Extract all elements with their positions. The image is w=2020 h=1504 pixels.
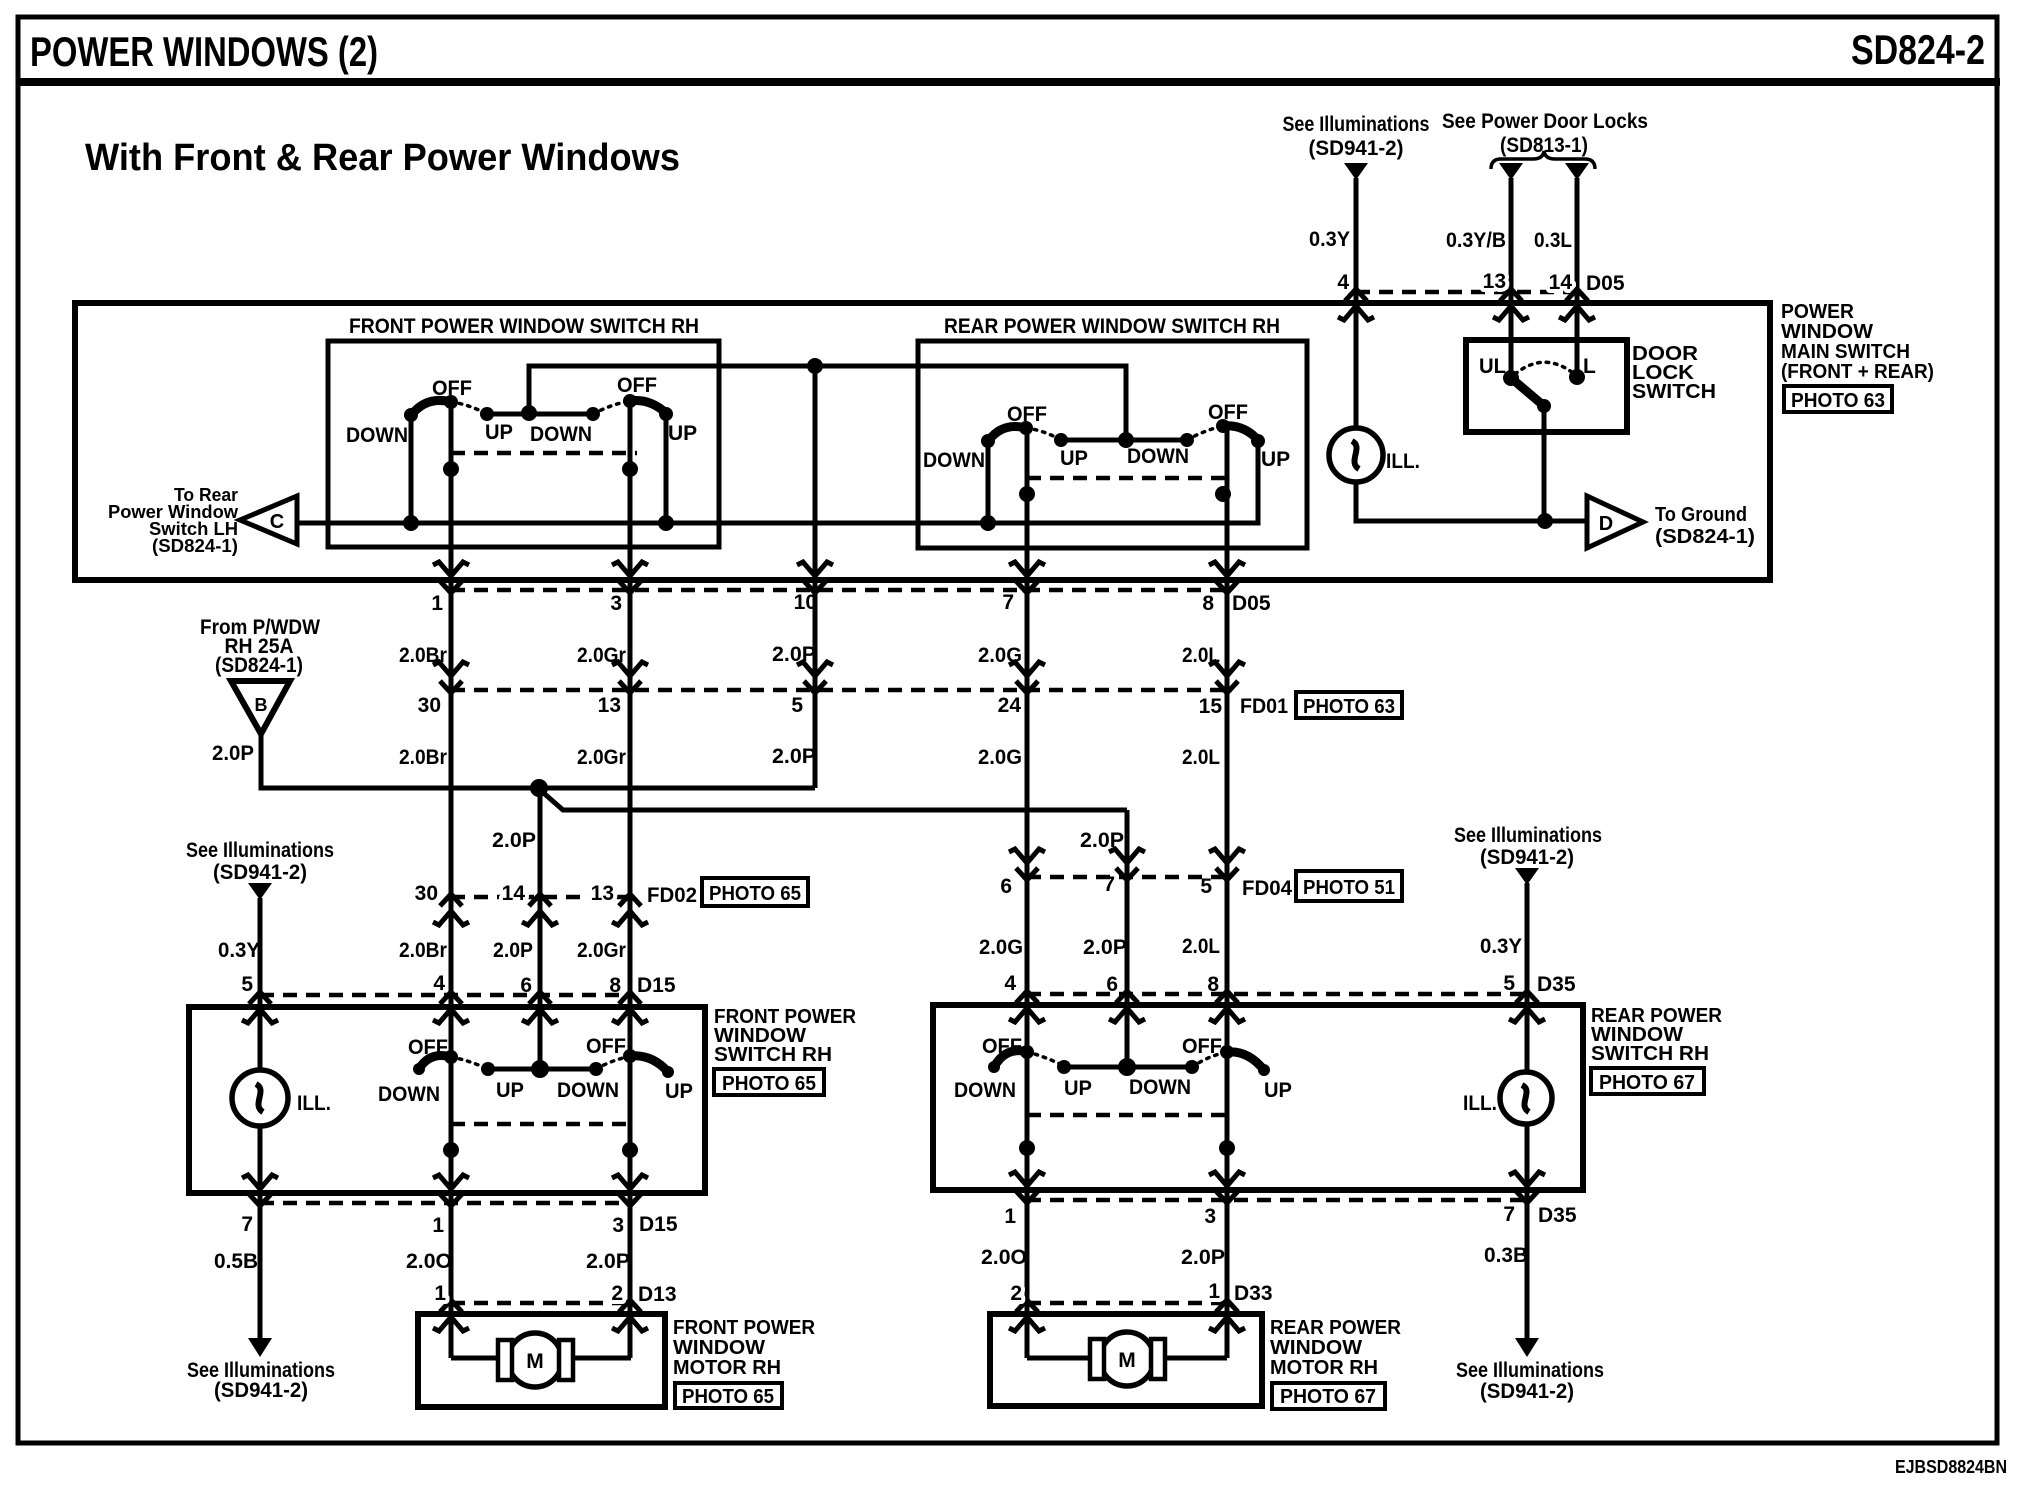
- connector chevrons D35 pin1: [1009, 1172, 1045, 1203]
- svg-text:DOWN: DOWN: [1129, 1076, 1191, 1099]
- mechanical link dashed (front upper): [451, 451, 637, 456]
- svg-text:6: 6: [520, 974, 532, 997]
- svg-text:1: 1: [1004, 1205, 1016, 1228]
- svg-text:ILL.: ILL.: [1463, 1092, 1497, 1115]
- connector chevrons D05 pin4: [1338, 289, 1374, 320]
- svg-text:2.0O: 2.0O: [406, 1250, 452, 1273]
- svg-text:SD824-2: SD824-2: [1851, 26, 1985, 73]
- mechanical link dashed (front lower): [451, 1122, 633, 1127]
- switch arm OFF-UP (front lower right): [630, 1056, 668, 1072]
- wire to rear motor left brush: [1027, 1356, 1092, 1361]
- svg-text:0.3Y: 0.3Y: [218, 939, 260, 962]
- svg-text:M: M: [1118, 1349, 1136, 1372]
- switch pivot dot (rear lower right): [1220, 1045, 1234, 1059]
- svg-text:(SD824-1): (SD824-1): [1655, 526, 1755, 548]
- connector D13 dashed line: [451, 1301, 631, 1306]
- svg-text:3: 3: [610, 592, 622, 615]
- connector chevrons FD04 pin6: [1009, 849, 1045, 880]
- label See Illuminations (SD941-2) bottom right: [1456, 1359, 1604, 1403]
- dotted throw DOWN-pivot (rear upper right): [1187, 426, 1223, 440]
- svg-text:(SD941-2): (SD941-2): [1480, 846, 1574, 869]
- connector chevrons D35 pin8: [1209, 991, 1245, 1022]
- photo ref box PHOTO 63 (FD01): [1296, 692, 1402, 718]
- svg-text:See Illuminations: See Illuminations: [1456, 1359, 1604, 1382]
- svg-text:2.0Gr: 2.0Gr: [577, 939, 626, 962]
- svg-text:5: 5: [1200, 875, 1212, 898]
- wire to motor right brush: [572, 1356, 631, 1361]
- svg-text:D15: D15: [639, 1213, 678, 1236]
- wire link between contacts (front lower): [488, 1067, 596, 1072]
- connector chevrons D35 pin6: [1109, 991, 1145, 1022]
- connector chevrons D05 pin13: [1493, 289, 1529, 320]
- junction dot wire4 (front lower): [443, 1142, 459, 1158]
- arrow into wire 0.3Y right: [1515, 868, 1539, 885]
- contact DOWN dot (rear lower right): [1185, 1060, 1199, 1074]
- front power window switch RH lower box: [189, 1007, 705, 1193]
- junction dot link center (front lower): [531, 1060, 549, 1078]
- switch pivot dot (rear lower left): [1020, 1045, 1034, 1059]
- svg-text:REAR POWER WINDOW SWITCH RH: REAR POWER WINDOW SWITCH RH: [944, 315, 1280, 338]
- svg-text:(FRONT + REAR): (FRONT + REAR): [1781, 361, 1934, 383]
- arrow to See Illuminations bottom left: [248, 1338, 272, 1357]
- svg-text:See Illuminations: See Illuminations: [1283, 113, 1430, 136]
- contact UP dot + wire to bus end (rear upper right): [297, 434, 1265, 523]
- contact UP dot (front upper left): [480, 407, 494, 421]
- connector chevrons D05 pin14: [1559, 289, 1595, 320]
- connector D triangle to ground: [1587, 496, 1643, 548]
- junction dot link center (rear lower): [1118, 1058, 1136, 1076]
- wire link between contacts (rear lower): [1064, 1065, 1192, 1070]
- svg-text:OFF: OFF: [617, 374, 657, 397]
- svg-text:2.0P: 2.0P: [493, 939, 533, 962]
- svg-text:PHOTO 65: PHOTO 65: [722, 1073, 816, 1095]
- svg-text:13: 13: [598, 694, 621, 717]
- arrow from power door locks into wire 0.3L: [1565, 163, 1589, 180]
- junction dot wire1 (front upper): [443, 461, 459, 477]
- svg-text:4: 4: [1004, 972, 1016, 995]
- junction dot wire8 (rear upper): [1215, 486, 1231, 502]
- bus junction dot front DOWN: [403, 515, 419, 531]
- connector FD04 dashed line: [1027, 875, 1227, 880]
- svg-text:D05: D05: [1586, 272, 1625, 295]
- contact DOWN dot (front upper right): [586, 407, 600, 421]
- svg-text:D13: D13: [638, 1283, 677, 1306]
- connector chevrons D35 pin4: [1009, 991, 1045, 1022]
- svg-text:8: 8: [1207, 973, 1219, 996]
- wire 2.0P jog to rear branch: [539, 789, 1127, 810]
- switch pivot dot (front lower right): [623, 1049, 637, 1063]
- svg-text:0.5B: 0.5B: [214, 1250, 258, 1273]
- connector chevrons FD01 pin30: [433, 662, 469, 693]
- svg-text:2.0Br: 2.0Br: [399, 746, 447, 769]
- contact UP dot (front lower left): [481, 1062, 495, 1076]
- junction dot wire8 (rear lower): [1219, 1140, 1235, 1156]
- svg-text:(SD941-2): (SD941-2): [214, 1379, 308, 1402]
- svg-text:DOWN: DOWN: [923, 449, 985, 472]
- svg-text:(SD824-1): (SD824-1): [152, 536, 238, 556]
- connector chevrons FD04 pin5: [1209, 849, 1245, 880]
- svg-text:FRONT POWER: FRONT POWER: [673, 1317, 816, 1339]
- junction pin10 tee: [807, 358, 823, 374]
- title separator bar: [16, 78, 2000, 86]
- junction dot 2.0P distribution: [530, 779, 548, 797]
- svg-text:UL: UL: [1479, 355, 1506, 378]
- arrow to See Illuminations bottom right: [1515, 1338, 1539, 1357]
- wire horizontal top link y366: [529, 366, 1126, 440]
- connector chevrons D05 pin7: [1009, 562, 1045, 593]
- svg-text:14: 14: [502, 882, 526, 905]
- switch pivot dot (front upper left): [444, 395, 458, 409]
- svg-text:5: 5: [791, 694, 803, 717]
- svg-text:4: 4: [1337, 271, 1349, 294]
- svg-text:UP: UP: [1060, 447, 1088, 470]
- contact DOWN dot (front lower right): [589, 1062, 603, 1076]
- brace over door lock wires: [1491, 151, 1595, 169]
- svg-text:2.0L: 2.0L: [1182, 746, 1220, 769]
- photo ref box PHOTO 67 (rear motor): [1272, 1383, 1385, 1409]
- svg-text:DOWN: DOWN: [1127, 445, 1189, 468]
- svg-text:2.0Gr: 2.0Gr: [577, 746, 626, 769]
- wire 2.0Gr vertical (pin3/D05 to lower pin8): [628, 401, 633, 1358]
- switch arm OFF-DOWN (front lower left): [419, 1056, 451, 1070]
- label From P/WDW RH 25A (SD824-1): [200, 616, 320, 677]
- arrow from illuminations into wire 0.3Y: [1344, 163, 1368, 180]
- svg-text:8: 8: [609, 974, 621, 997]
- svg-text:7: 7: [1503, 1203, 1515, 1226]
- connector D05 top dashed line: [1356, 290, 1577, 295]
- svg-text:8: 8: [1202, 592, 1214, 615]
- connector D35 bottom dashed line: [1027, 1198, 1527, 1203]
- switch pivot dot (front lower left): [444, 1050, 458, 1064]
- svg-text:30: 30: [418, 694, 441, 717]
- svg-text:PHOTO 65: PHOTO 65: [709, 883, 801, 905]
- svg-text:UP: UP: [485, 421, 513, 444]
- ILL lamp rear lower: [1500, 1072, 1552, 1124]
- door lock switch box: [1466, 340, 1627, 432]
- svg-text:2: 2: [611, 1282, 623, 1305]
- svg-text:B: B: [255, 695, 268, 715]
- svg-text:PHOTO 63: PHOTO 63: [1303, 696, 1395, 718]
- wire 0.3Y right to rear lower ILL lamp: [1525, 883, 1530, 1340]
- power window main switch outer box: [75, 303, 1770, 580]
- connector chevrons D05 pin10: [797, 562, 833, 593]
- contact UL dot: [1503, 370, 1519, 386]
- svg-text:2.0P: 2.0P: [586, 1250, 630, 1273]
- svg-text:WINDOW: WINDOW: [1781, 321, 1873, 343]
- svg-text:(SD824-1): (SD824-1): [215, 654, 303, 677]
- svg-text:6: 6: [1106, 973, 1118, 996]
- dotted throw pivot-UP (rear upper left): [1026, 428, 1061, 440]
- door lock switch arm: [1511, 378, 1544, 406]
- svg-text:DOWN: DOWN: [378, 1083, 440, 1106]
- svg-text:MOTOR RH: MOTOR RH: [673, 1357, 781, 1379]
- junction dot wire7 (rear upper): [1019, 486, 1035, 502]
- svg-text:PHOTO 65: PHOTO 65: [682, 1386, 774, 1408]
- contact UP dot (rear upper left): [1054, 433, 1068, 447]
- connector chevrons D05 pin8: [1209, 562, 1245, 593]
- svg-text:1: 1: [432, 1214, 444, 1237]
- junction dot link center (rear upper): [1118, 432, 1134, 448]
- svg-text:2: 2: [1010, 1282, 1022, 1305]
- dotted throw DOWN-pivot (rear lower right): [1192, 1052, 1227, 1067]
- connector D33 dashed line: [1027, 1301, 1227, 1306]
- svg-text:1: 1: [434, 1282, 446, 1305]
- wire 2.0G vertical (pin7/D05 to rear lower box): [1025, 428, 1030, 1358]
- svg-text:UP: UP: [496, 1079, 524, 1102]
- svg-text:(SD941-2): (SD941-2): [1480, 1380, 1574, 1403]
- svg-text:0.3B: 0.3B: [1484, 1244, 1528, 1267]
- door lock pivot dot + wire to ground bus: [1537, 399, 1551, 521]
- wire lamp bottom to ground bus: [1356, 482, 1586, 521]
- dotted throw pivot-UP (front lower left): [451, 1057, 488, 1069]
- connector D05 bottom dashed line: [451, 588, 1227, 593]
- label See Illuminations (SD941-2) top: [1283, 113, 1430, 160]
- connector chevrons D15 pin3: [612, 1175, 648, 1206]
- contact DOWN dot + wire to bus (rear upper left): [981, 434, 995, 523]
- connector D15 bottom dashed line: [260, 1201, 631, 1206]
- svg-text:OFF: OFF: [982, 1035, 1022, 1058]
- svg-text:24: 24: [998, 694, 1022, 717]
- svg-text:ILL.: ILL.: [297, 1092, 331, 1115]
- label See Illuminations (SD941-2) left: [186, 839, 334, 884]
- connector FD02 dashed line: [451, 895, 630, 900]
- svg-text:UP: UP: [665, 1080, 693, 1103]
- switch pivot dot (rear upper right): [1216, 419, 1230, 433]
- svg-text:See Illuminations: See Illuminations: [186, 839, 334, 862]
- connector chevrons D13 pin1: [433, 1300, 469, 1331]
- label FRONT POWER WINDOW MOTOR RH: [673, 1317, 816, 1379]
- svg-text:D33: D33: [1234, 1282, 1273, 1305]
- svg-text:2.0P: 2.0P: [1083, 936, 1127, 959]
- ILL lamp front lower: [232, 1070, 288, 1126]
- svg-text:MAIN SWITCH: MAIN SWITCH: [1781, 341, 1910, 363]
- junction dot link center (front upper): [521, 405, 537, 421]
- wire 2.0P feed horizontal from B: [261, 734, 815, 788]
- svg-text:M: M: [526, 1350, 544, 1373]
- svg-text:POWER: POWER: [1781, 301, 1855, 323]
- svg-text:D05: D05: [1232, 592, 1271, 615]
- svg-text:0.3Y/B: 0.3Y/B: [1446, 229, 1506, 252]
- connector chevrons D33 pin2: [1009, 1300, 1045, 1331]
- connector chevrons D05 pin1: [433, 562, 469, 593]
- switch arm OFF-UP (front upper right): [630, 401, 667, 414]
- dotted throw DOWN-pivot (front lower right): [596, 1056, 631, 1069]
- svg-text:13: 13: [591, 882, 614, 905]
- junction dot wire8 (front lower): [622, 1142, 638, 1158]
- svg-text:C: C: [270, 511, 284, 533]
- junction dot wire3 (front upper): [622, 461, 638, 477]
- svg-text:0.3L: 0.3L: [1534, 229, 1572, 252]
- connector chevrons D13 pin2: [612, 1300, 648, 1331]
- svg-text:D15: D15: [637, 974, 676, 997]
- connector chevrons FD01 pin13: [612, 662, 648, 693]
- svg-text:2.0G: 2.0G: [979, 936, 1023, 959]
- svg-text:See Power Door Locks: See Power Door Locks: [1442, 110, 1648, 133]
- label REAR POWER WINDOW SWITCH RH (lower): [1591, 1005, 1723, 1065]
- svg-text:DOWN: DOWN: [346, 424, 408, 447]
- svg-text:2.0O: 2.0O: [981, 1246, 1027, 1269]
- dotted throw pivot-UP (front upper left): [451, 402, 487, 414]
- wire to motor left brush: [451, 1356, 500, 1361]
- rear power window switch RH lower box: [933, 1005, 1583, 1190]
- dotted throw pivot-UP (rear lower left): [1027, 1052, 1064, 1066]
- svg-text:1: 1: [431, 592, 443, 615]
- svg-text:2.0Br: 2.0Br: [399, 939, 447, 962]
- svg-text:FRONT POWER WINDOW SWITCH RH: FRONT POWER WINDOW SWITCH RH: [349, 315, 699, 338]
- connector chevrons D33 pin1: [1209, 1300, 1245, 1331]
- svg-text:PHOTO 63: PHOTO 63: [1791, 390, 1885, 412]
- svg-text:2.0P: 2.0P: [492, 829, 536, 852]
- photo ref box PHOTO 51 (FD04): [1296, 871, 1402, 901]
- arrow into wire 0.3Y left: [248, 883, 272, 900]
- switch arm OFF-DOWN (front upper left): [413, 400, 451, 413]
- svg-text:PHOTO 51: PHOTO 51: [1303, 877, 1395, 899]
- svg-text:PHOTO 67: PHOTO 67: [1599, 1072, 1695, 1094]
- label See Illuminations (SD941-2) right: [1454, 824, 1602, 869]
- connector B triangle from P/WDW: [231, 681, 290, 734]
- photo ref box PHOTO 65 (front motor): [675, 1383, 782, 1408]
- dotted throw arc UL-L: [1515, 362, 1573, 374]
- connector chevrons D05 pin3: [612, 562, 648, 593]
- svg-text:UP: UP: [1264, 1079, 1292, 1102]
- contact UP dot (rear lower left): [1057, 1060, 1071, 1074]
- svg-text:SWITCH RH: SWITCH RH: [1591, 1043, 1709, 1065]
- svg-text:1: 1: [1208, 1280, 1220, 1303]
- switch arm OFF-UP (rear lower right): [1227, 1052, 1264, 1070]
- wire 0.3Y from See Illuminations to ILL lamp: [1354, 178, 1359, 521]
- bus junction dot rear DOWN: [980, 515, 996, 531]
- svg-text:OFF: OFF: [1208, 401, 1248, 424]
- svg-text:REAR POWER: REAR POWER: [1270, 1317, 1402, 1339]
- connector C triangle to rear power window switch LH: [240, 496, 297, 544]
- motor M front: [498, 1333, 573, 1387]
- svg-text:15: 15: [1199, 695, 1223, 718]
- svg-text:WINDOW: WINDOW: [1270, 1337, 1362, 1359]
- switch arm OFF-UP (rear upper right): [1223, 426, 1259, 441]
- contact DOWN dot + wire to bus (front upper left): [404, 408, 418, 523]
- connector chevrons D15 pin8: [612, 992, 648, 1023]
- svg-text:SWITCH: SWITCH: [1632, 381, 1716, 403]
- svg-text:2.0G: 2.0G: [978, 746, 1022, 769]
- svg-text:D35: D35: [1538, 1204, 1577, 1227]
- svg-text:2.0P: 2.0P: [212, 742, 254, 765]
- connector D15 top dashed line: [260, 993, 630, 998]
- photo ref box PHOTO 65 (front lower switch): [714, 1069, 824, 1095]
- svg-text:DOWN: DOWN: [557, 1079, 619, 1102]
- svg-text:PHOTO 67: PHOTO 67: [1280, 1386, 1376, 1408]
- svg-text:MOTOR RH: MOTOR RH: [1270, 1357, 1378, 1379]
- rear power window switch RH box (upper): [918, 341, 1307, 548]
- svg-text:OFF: OFF: [586, 1035, 626, 1058]
- svg-text:14: 14: [1549, 271, 1573, 294]
- svg-text:OFF: OFF: [1182, 1035, 1222, 1058]
- label REAR POWER WINDOW MOTOR RH: [1270, 1317, 1402, 1379]
- svg-text:FD02: FD02: [647, 884, 697, 907]
- junction dot ground bus: [1537, 513, 1553, 529]
- bus junction dot front UP: [658, 515, 674, 531]
- wire 2.0P vertical rear branch (to FD04 pin7): [1125, 810, 1130, 1068]
- svg-text:(SD941-2): (SD941-2): [213, 861, 307, 884]
- svg-text:ILL.: ILL.: [1386, 450, 1420, 473]
- contact L dot: [1569, 369, 1585, 385]
- arrow from power door locks into wire 0.3Y/B: [1499, 163, 1523, 180]
- svg-text:2.0P: 2.0P: [1181, 1246, 1225, 1269]
- arm end blob (rear lower right): [1258, 1064, 1270, 1076]
- label See Illuminations (SD941-2) bottom left: [187, 1359, 335, 1402]
- connector chevrons D35 pin7: [1509, 1172, 1545, 1203]
- motor M rear: [1090, 1332, 1165, 1386]
- svg-text:OFF: OFF: [408, 1036, 448, 1059]
- wire link between switch contacts (rear upper): [1061, 438, 1187, 443]
- arm end blob (front lower left): [413, 1063, 425, 1075]
- svg-text:(SD941-2): (SD941-2): [1309, 137, 1404, 160]
- switch arm OFF-DOWN (rear lower left): [994, 1051, 1027, 1067]
- photo ref box PHOTO 63 (main switch): [1784, 386, 1892, 412]
- svg-text:0.3Y: 0.3Y: [1309, 228, 1350, 251]
- connector chevrons FD01 pin24: [1009, 662, 1045, 693]
- svg-text:SWITCH RH: SWITCH RH: [714, 1044, 832, 1066]
- connector chevrons FD01 pin5: [797, 662, 833, 693]
- svg-text:D35: D35: [1537, 973, 1576, 996]
- photo ref box PHOTO 67 (rear lower switch): [1591, 1068, 1704, 1094]
- connector chevrons D15 pin1: [433, 1175, 469, 1206]
- wire link between switch contacts (front upper): [487, 412, 593, 417]
- mechanical link dashed (rear lower): [1027, 1113, 1230, 1118]
- wire 2.0L vertical (pin8/D05 to rear lower box): [1225, 426, 1230, 1358]
- wire 0.3L to door lock switch L: [1575, 178, 1580, 377]
- connector chevrons FD02 pin14: [522, 894, 558, 925]
- wire 2.0Br vertical (pin1/D05 to front switch RH lower box pin4): [449, 402, 454, 1358]
- dotted throw DOWN-pivot (front upper right): [593, 401, 630, 414]
- junction dot wire4 (rear lower): [1019, 1140, 1035, 1156]
- connector chevrons FD01 pin15: [1209, 662, 1245, 693]
- label To Ground (SD824-1): [1655, 504, 1755, 548]
- svg-text:10: 10: [794, 591, 817, 614]
- switch pivot dot (rear upper left): [1019, 421, 1033, 435]
- contact DOWN dot (rear upper right): [1180, 433, 1194, 447]
- svg-text:7: 7: [1002, 591, 1014, 614]
- svg-text:With Front & Rear Power Window: With Front & Rear Power Windows: [85, 137, 680, 179]
- connector chevrons FD04 pin7: [1109, 849, 1145, 880]
- svg-text:2.0P: 2.0P: [772, 643, 816, 666]
- front power window switch RH box (upper): [328, 341, 719, 547]
- wire 0.3Y/B to door lock switch UL: [1509, 178, 1514, 378]
- svg-text:UP: UP: [1261, 448, 1290, 471]
- connector D35 top dashed line: [1027, 992, 1527, 997]
- arm end blob (front lower right): [662, 1066, 674, 1078]
- ILL lamp main switch: [1329, 428, 1383, 482]
- label To Rear Power Window Switch LH (SD824-1): [108, 485, 239, 556]
- svg-text:EJBSD8824BN: EJBSD8824BN: [1895, 1457, 2007, 1477]
- rear power window motor RH box: [990, 1314, 1262, 1406]
- connector chevrons FD02 pin30: [433, 894, 469, 925]
- svg-text:6: 6: [1000, 875, 1012, 898]
- svg-text:2.0P: 2.0P: [772, 745, 816, 768]
- svg-text:7: 7: [1103, 873, 1115, 896]
- svg-text:0.3Y: 0.3Y: [1480, 935, 1522, 958]
- svg-text:DOWN: DOWN: [530, 423, 592, 446]
- svg-text:L: L: [1583, 355, 1596, 378]
- contact UP dot + wire to bus (front upper right): [659, 407, 673, 523]
- wire 2.0P vertical pin10: [813, 366, 818, 788]
- wire to rear motor right brush: [1162, 1356, 1227, 1361]
- svg-text:UP: UP: [668, 422, 697, 445]
- svg-text:POWER WINDOWS (2): POWER WINDOWS (2): [30, 28, 378, 75]
- connector chevrons D15 pin5: [242, 992, 278, 1023]
- svg-text:FD04: FD04: [1242, 877, 1292, 900]
- wire 0.3Y left to front lower ILL lamp: [258, 898, 263, 1340]
- svg-text:2.0L: 2.0L: [1182, 935, 1220, 958]
